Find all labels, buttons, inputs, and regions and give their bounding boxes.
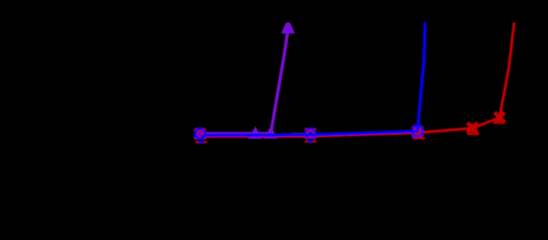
red diamond fill at P8 [495, 113, 503, 122]
purple series line [200, 28, 288, 134]
purple triangle marker at P4 (top, clipped flat) [281, 18, 295, 33]
red diamond fill at P7 [468, 124, 476, 134]
red x marker at P5 [305, 129, 315, 139]
red blob inside P6 ring [414, 130, 419, 135]
blue cap bar under P1 [198, 141, 205, 143]
ghost violet segment right of purple rise [291, 132, 307, 134]
red cap bar under P8 [493, 122, 505, 124]
blue cap bar under P6 [412, 137, 421, 139]
red x marker at P6 [412, 126, 422, 136]
red x marker at P1 [195, 129, 205, 139]
blue filled circle marker at P5 [304, 127, 316, 139]
blue cap bar under P5 [308, 141, 314, 143]
red x marker at P7 [468, 123, 478, 133]
purple triangle marker at P1 [193, 127, 206, 139]
purple triangle marker at P2 [249, 126, 263, 138]
red cap bar under P5 [305, 141, 316, 143]
red x marker at P8 [495, 112, 505, 122]
red ring marker at P5 [307, 131, 314, 138]
red series line [200, 19, 515, 137]
red stub inside P1 ring [201, 133, 204, 135]
red cap bar under P6 (over blue cap) [414, 137, 425, 139]
blue filled circle marker at P6 [412, 126, 423, 137]
purple triangle marker at P3 [264, 126, 278, 138]
red cap bar under P7 [467, 133, 479, 135]
red cap bar under P1 [196, 141, 208, 143]
blue filled circle marker at P1 [194, 128, 207, 141]
red ring marker at P1 [198, 131, 204, 137]
red ring marker at P6 [414, 128, 420, 134]
blue series line [200, 18, 425, 135]
